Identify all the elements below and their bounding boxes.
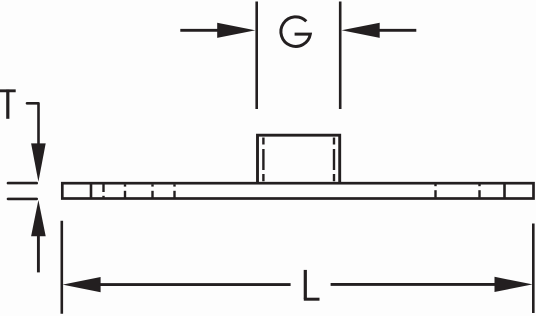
- tab hidden line right: [333, 138, 335, 182]
- T extension line top: [8, 182, 37, 185]
- G dimension arrow right: [342, 23, 417, 38]
- G dimension arrow left: [180, 23, 255, 38]
- T leader line: [27, 103, 39, 144]
- hidden serration line 5: [434, 184, 436, 197]
- hidden serration line 4: [173, 185, 175, 198]
- hidden serration line 1 (dash top, dot bottom): [102, 185, 104, 198]
- plate divider line left (tongue/barrel boundary): [90, 183, 93, 198]
- raised tab (boss) outline: [258, 135, 340, 183]
- hidden serration line 3: [151, 185, 153, 198]
- L dimension extension line left: [60, 221, 63, 314]
- hidden serration line 2 (dot top, dash bottom): [124, 185, 126, 198]
- G dimension extension line left: [255, 2, 258, 110]
- L dimension arrow left: [63, 277, 291, 292]
- tab hidden line left: [262, 138, 264, 182]
- hidden serration line 6: [478, 184, 480, 197]
- label T: [0, 89, 16, 118]
- terminal plate body outline: [62, 183, 533, 198]
- T arrow down: [31, 143, 46, 181]
- T extension line bottom: [8, 198, 37, 201]
- plate divider line right: [503, 183, 506, 198]
- label L: [304, 270, 320, 299]
- T arrow up: [31, 200, 46, 272]
- L dimension extension line right: [532, 224, 535, 314]
- G dimension extension line right: [339, 2, 342, 110]
- label G: [281, 17, 310, 47]
- L dimension arrow right: [331, 277, 533, 292]
